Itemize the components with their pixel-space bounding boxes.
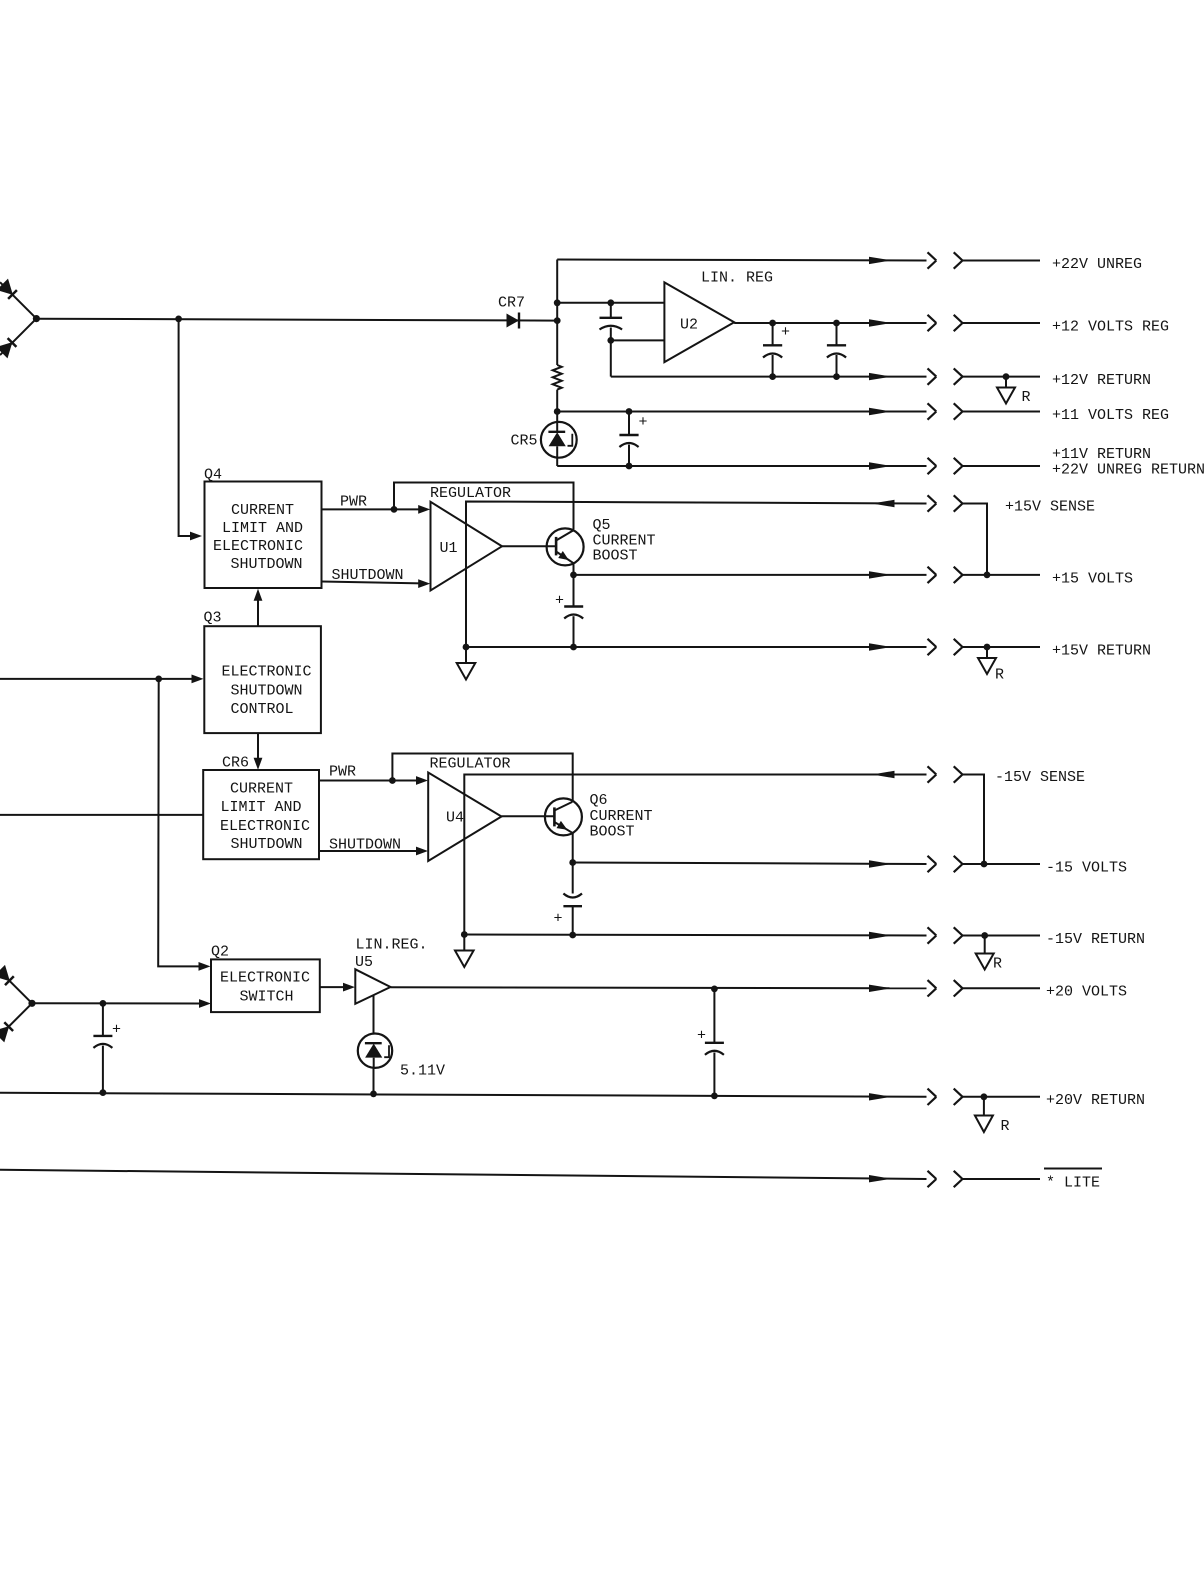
svg-text:+15 VOLTS: +15 VOLTS (1052, 571, 1133, 588)
node: return rail / C7 (100, 1089, 107, 1096)
diode CR7 (507, 313, 520, 329)
svg-text:CURRENT: CURRENT (231, 502, 294, 519)
arrowhead into U1 SHUTDOWN (418, 579, 430, 588)
node: +12V return ground tap (1003, 373, 1010, 380)
node: C1 bottom / feedback tap (607, 337, 614, 344)
resistor R1 (series dropper) (553, 365, 562, 390)
node: C3 top (833, 320, 840, 327)
wire: regulator feedback rail (lower) (392, 754, 572, 802)
svg-text:LIN.REG.: LIN.REG. (356, 937, 428, 954)
wire: bridge node to Q2 lower input (32, 1002, 202, 1004)
node: PWR feedback tap (391, 506, 398, 513)
svg-text:LIMIT AND: LIMIT AND (220, 799, 301, 816)
capacitor C4 (619, 412, 638, 467)
arrowhead into Q3 (192, 675, 204, 684)
svg-text:+: + (639, 414, 648, 431)
wire: resistor to +11V node (556, 390, 558, 422)
wire: vertical feed down to Q4 input (179, 319, 193, 536)
wire: +20V return rail (0, 1093, 927, 1097)
svg-text:+22V UNREG: +22V UNREG (1052, 256, 1142, 273)
node: +20V return ground tap (981, 1093, 988, 1100)
node: -15V return / ground (461, 931, 468, 938)
connector -15 VOLTS (869, 856, 1040, 872)
svg-text:SHUTDOWN: SHUTDOWN (230, 556, 302, 573)
svg-text:+15V RETURN: +15V RETURN (1052, 643, 1151, 660)
arrowhead into U4 PWR (416, 776, 428, 785)
connector +22V UNREG (869, 252, 1040, 268)
node: return rail / zener (370, 1091, 377, 1098)
svg-text:+: + (554, 911, 563, 928)
svg-text:5.11V: 5.11V (400, 1063, 445, 1080)
overline for LITE (1044, 1168, 1102, 1170)
wire: feedback down to return rail (610, 340, 612, 376)
wire: +15V sense takeoff through U1 (466, 502, 927, 646)
connector +11 VOLTS REG (869, 403, 1040, 419)
svg-text:Q5: Q5 (593, 517, 611, 534)
wire: +15V return rail (466, 646, 927, 648)
svg-text:* LITE: * LITE (1046, 1175, 1100, 1192)
svg-text:REGULATOR: REGULATOR (430, 485, 511, 502)
node: +20V line / C8 (711, 986, 718, 993)
node: C2 bottom (769, 373, 776, 380)
wire: Q3 to Q4 link (257, 597, 259, 626)
node: -15V return / C6 (569, 932, 576, 939)
svg-text:-15 VOLTS: -15 VOLTS (1046, 860, 1127, 877)
zener diode CR5 (541, 422, 577, 466)
wire: bridge node to CR7 to +22V bus vertical (36, 319, 557, 321)
node: C7 tap (100, 1000, 107, 1007)
svg-text:ELECTRONIC: ELECTRONIC (213, 538, 303, 555)
connector +20 VOLTS (869, 980, 1040, 996)
svg-text:CURRENT: CURRENT (590, 808, 653, 825)
svg-text:-15V SENSE: -15V SENSE (995, 769, 1085, 786)
wire: +22V unreg vertical bus x=557 (556, 260, 558, 366)
connector +11V RETURN / +22V UNREG RETURN (869, 458, 1040, 474)
ground symbol under U1 (457, 647, 476, 680)
svg-text:SWITCH: SWITCH (239, 989, 293, 1006)
capacitor C3 (827, 323, 846, 377)
bridge diode D3 (bottom left, clipped) (0, 965, 32, 1003)
zener diode VR1 5.11V (358, 1034, 392, 1094)
capacitor C2 (polarized) (763, 323, 782, 377)
wire: left vertical bus down to Q2 (158, 679, 201, 967)
node: C4 bottom (626, 463, 633, 470)
svg-text:+: + (555, 593, 564, 610)
wire: +11V reg line (557, 411, 926, 413)
regulator U1 (431, 502, 503, 591)
capacitor C5 (564, 607, 583, 648)
svg-text:U5: U5 (355, 954, 373, 971)
svg-text:+20V RETURN: +20V RETURN (1046, 1092, 1145, 1109)
node: C1 top (607, 299, 614, 306)
arrowhead into U5 (343, 983, 355, 992)
bridge diode D4 (bottom left, clipped) (0, 1003, 32, 1042)
capacitor C8 (705, 989, 724, 1096)
transistor Q5 current boost (547, 528, 584, 565)
connector +20V RETURN (869, 1089, 1040, 1105)
wire: left input to CR6 (0, 814, 203, 816)
transistor Q6 current boost (545, 798, 582, 835)
wire: Q4 SHUTDOWN to U1 (322, 582, 422, 584)
svg-text:+: + (697, 1028, 706, 1045)
arrowhead into Q2 lower input (199, 999, 211, 1008)
bridge diode D1 (top left, clipped at edge) (0, 279, 36, 319)
arrowhead into Q2 upper input (199, 962, 211, 971)
svg-text:CONTROL: CONTROL (230, 701, 293, 718)
svg-text:+20 VOLTS: +20 VOLTS (1046, 984, 1127, 1001)
svg-text:+22V UNREG RETURN: +22V UNREG RETURN (1052, 462, 1204, 479)
wire: U5 bottom to zener (373, 996, 375, 1034)
svg-text:LIN. REG: LIN. REG (701, 270, 773, 287)
svg-text:Q6: Q6 (590, 792, 608, 809)
svg-text:ELECTRONIC: ELECTRONIC (220, 970, 310, 987)
node: left bus tap (155, 676, 162, 683)
svg-text:BOOST: BOOST (590, 824, 635, 841)
wire: +11V / +22V unreg return line (557, 465, 926, 467)
wire: +15 volts line (574, 574, 927, 576)
node: PWR feedback tap (lower) (389, 777, 396, 784)
connector +15V SENSE (872, 495, 987, 575)
wire: -15 volts line (573, 863, 927, 865)
svg-text:R: R (995, 667, 1004, 684)
node: U2 input tap (554, 299, 561, 306)
connector +15 VOLTS (869, 567, 1040, 583)
capacitor C7 (93, 1003, 112, 1092)
svg-text:REGULATOR: REGULATOR (430, 756, 511, 773)
arrowhead into Q4 (190, 532, 202, 541)
wire: U4 output to Q6 base (502, 815, 555, 817)
bridge diode D2 (lower left, clipped at edge) (0, 319, 36, 359)
svg-text:+: + (781, 324, 790, 341)
node: C4 top (626, 408, 633, 415)
svg-text:ELECTRONIC: ELECTRONIC (220, 818, 310, 835)
svg-text:+12 VOLTS REG: +12 VOLTS REG (1052, 319, 1169, 336)
svg-text:+15V SENSE: +15V SENSE (1005, 499, 1095, 516)
svg-text:+11 VOLTS REG: +11 VOLTS REG (1052, 407, 1169, 424)
connector * LITE (869, 1171, 1040, 1187)
wire: Q3 to CR6 link (257, 733, 259, 761)
connector +15V RETURN (869, 639, 1040, 655)
svg-text:SHUTDOWN: SHUTDOWN (230, 836, 302, 853)
arrowhead into Q4 bottom (254, 589, 263, 601)
wire: U2 output (+12V reg) (734, 322, 926, 324)
block CR6 current limit and electronic shutdown (203, 770, 319, 859)
node: return rail / C8 (711, 1093, 718, 1100)
node: sense join +15V (984, 572, 991, 579)
svg-text:ELECTRONIC: ELECTRONIC (221, 664, 311, 681)
svg-text:PWR: PWR (340, 494, 367, 511)
node: C3 bottom (833, 373, 840, 380)
capacitor C6 (curved plate up) (563, 894, 582, 936)
svg-text:R: R (1001, 1118, 1010, 1135)
wire: lite line (0, 1170, 927, 1179)
wire: CR6 PWR to U4 (320, 780, 419, 782)
connector -15V SENSE (872, 766, 984, 864)
node: CR7 junction (554, 317, 561, 324)
node: -15V output junction (569, 859, 576, 866)
wire: Q5 emitter down to +15V line (573, 563, 575, 606)
svg-text:U1: U1 (440, 540, 458, 557)
arrowhead into U4 SHUTDOWN (416, 847, 428, 856)
wire: U1 output to Q5 base (502, 545, 556, 547)
svg-text:-15V RETURN: -15V RETURN (1046, 931, 1145, 948)
node: -15V return ground tap (981, 932, 988, 939)
op-amp U2 (664, 282, 734, 362)
node: +15V return ground tap (984, 644, 991, 651)
svg-text:LIMIT AND: LIMIT AND (222, 520, 303, 537)
wire: +12V return rail (611, 376, 927, 378)
wire: -15V return rail (464, 935, 926, 936)
svg-text:Q3: Q3 (204, 610, 222, 627)
wire: Q2 output to U5 (320, 986, 346, 988)
ground symbol under U4 (455, 935, 474, 968)
arrowhead into U1 PWR (418, 505, 430, 514)
svg-text:+12V RETURN: +12V RETURN (1052, 372, 1151, 389)
wire: left input to Q3 (0, 678, 194, 680)
svg-text:U2: U2 (680, 317, 698, 334)
regulator U4 (428, 773, 501, 862)
wire: Q6 emitter down (572, 833, 574, 894)
svg-text:SHUTDOWN: SHUTDOWN (230, 683, 302, 700)
svg-text:Q2: Q2 (211, 944, 229, 961)
wire: regulator feedback rail (top) (394, 483, 574, 530)
connector -15V RETURN (869, 927, 1040, 943)
node: +11V junction (554, 408, 561, 415)
node: sense join -15V (981, 861, 988, 868)
wire: CR6 SHUTDOWN to U4 (320, 850, 419, 852)
node: bridge output (33, 315, 40, 322)
wire: Q4 PWR output to U1 (321, 508, 421, 510)
wire: -15V sense takeoff through U4 (464, 775, 926, 935)
node: tap to Q4 feed (175, 316, 182, 323)
wire: +20 volts line (391, 987, 927, 988)
regulator U5 (355, 969, 390, 1004)
node: bottom bridge output (28, 1000, 35, 1007)
svg-text:CR7: CR7 (498, 295, 525, 312)
node: return rail / C5 (570, 644, 577, 651)
block Q3 electronic shutdown control (204, 626, 321, 733)
svg-text:R: R (1022, 389, 1031, 406)
connector +12 VOLTS REG (869, 315, 1040, 331)
connector +12V RETURN (869, 368, 1040, 384)
node: C2 top (769, 320, 776, 327)
ground symbol R (+12V return) (997, 377, 1015, 404)
svg-text:PWR: PWR (329, 764, 356, 781)
wire: U2 minus input (611, 339, 665, 341)
ground symbol R (+20V return) (975, 1097, 993, 1132)
wire: U2 plus input (557, 302, 664, 304)
ground symbol R (-15V return) (976, 936, 994, 970)
svg-text:CR5: CR5 (511, 433, 538, 450)
arrowhead into CR6 top (254, 758, 263, 770)
ground symbol R (+15V return) (978, 647, 996, 674)
svg-text:U4: U4 (446, 810, 464, 827)
block Q2 electronic switch (211, 959, 320, 1012)
block Q4 current limit and electronic shutdown (205, 482, 322, 589)
svg-text:R: R (993, 956, 1002, 973)
wire: +22V unreg line (557, 260, 926, 261)
svg-text:BOOST: BOOST (593, 548, 638, 565)
node: +15V output junction (570, 572, 577, 579)
svg-text:+: + (112, 1022, 121, 1039)
node: return rail / ground (463, 644, 470, 651)
svg-text:CURRENT: CURRENT (230, 781, 293, 798)
capacitor C1 (U2 input) (600, 303, 623, 341)
svg-text:CR6: CR6 (222, 755, 249, 772)
svg-text:+11V RETURN: +11V RETURN (1052, 446, 1151, 463)
